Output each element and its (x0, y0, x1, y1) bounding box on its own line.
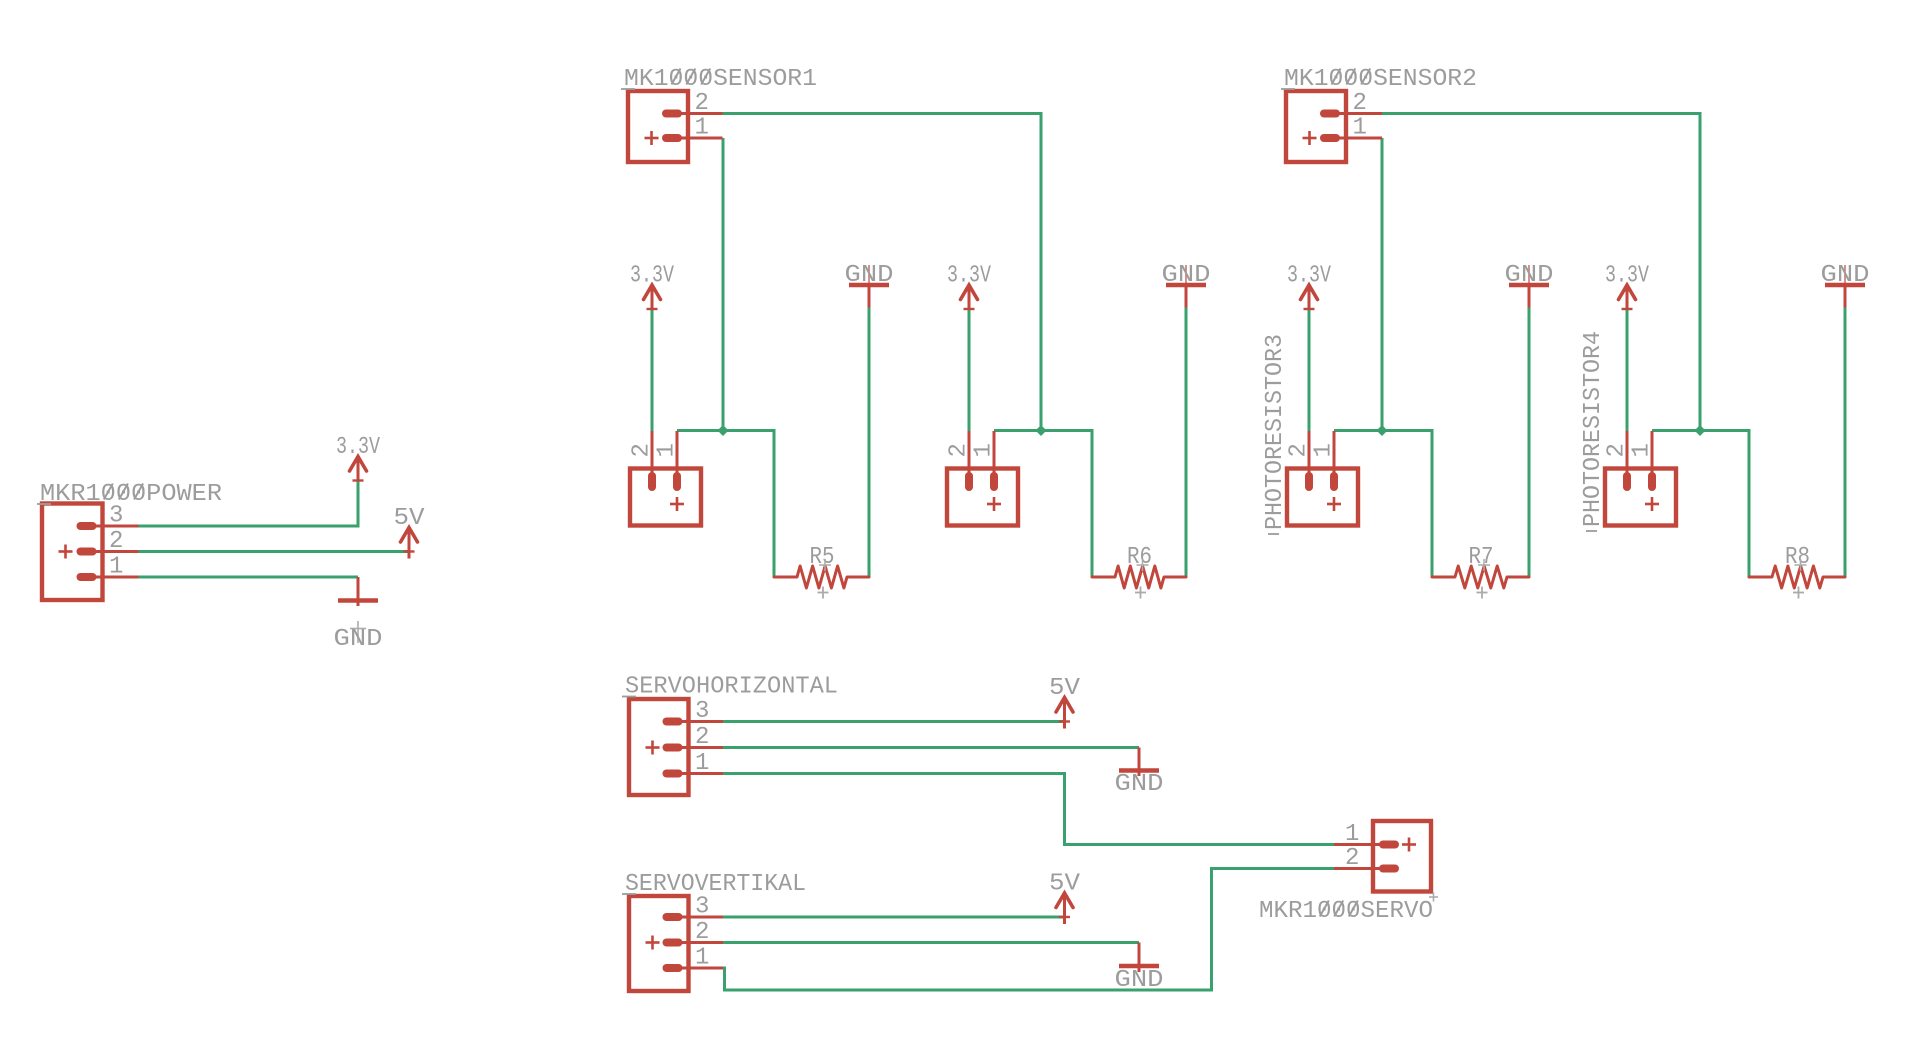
pin 1 pad (1320, 134, 1340, 142)
pin 1 pad (662, 134, 682, 142)
ground GND at SERVOVERTIKAL (1115, 943, 1164, 995)
junction A (718, 425, 729, 436)
pin 2 pad (663, 744, 683, 752)
junction D (1695, 425, 1706, 436)
pin 2 pad (1320, 110, 1340, 118)
svg-text:2: 2 (695, 919, 709, 946)
label MKR1000SERVO (1259, 893, 1438, 926)
wire MK1000SENSOR2 pin1 to junction C (1381, 138, 1384, 431)
svg-text:1: 1 (1629, 443, 1656, 457)
svg-text:5V: 5V (1049, 675, 1081, 702)
pin 1 pad (1330, 472, 1338, 491)
svg-text:GND: GND (334, 626, 383, 653)
svg-text:2: 2 (1345, 845, 1359, 872)
ground GND at MKR1000POWER (334, 577, 383, 653)
svg-text:1: 1 (695, 945, 709, 972)
connector SERVOHORIZONTAL (629, 698, 723, 795)
connector MK1000SENSOR1 (628, 90, 723, 162)
pin 2 pad (1379, 865, 1399, 873)
svg-text:2: 2 (695, 90, 709, 117)
pin 3 pad (663, 913, 683, 921)
pin 1 pad (1648, 472, 1656, 491)
svg-text:2: 2 (1286, 443, 1313, 457)
svg-text:5V: 5V (394, 505, 426, 532)
wire 3.3V supply to PHOTORESISTOR4 pin2 (1626, 310, 1629, 433)
supply 5V at SERVOVERTIKAL (1049, 871, 1081, 925)
resistor R8 (1749, 544, 1845, 599)
wire 3.3V supply to PHOTORESISTOR3 pin2 (1308, 310, 1311, 433)
svg-text:GND: GND (1505, 262, 1554, 289)
wire SERVOVERTIKAL pin1 to MKR1000SERVO pin2 (723, 869, 1334, 991)
svg-text:3.3V: 3.3V (1287, 263, 1331, 290)
wire MK1000SENSOR1 pin2 to junction B (723, 114, 1042, 431)
svg-text:MK1000SENSOR1: MK1000SENSOR1 (624, 66, 817, 93)
supply 3.3V at MKR1000POWER (336, 434, 380, 481)
svg-text:3.3V: 3.3V (630, 263, 674, 290)
wire SERVOHORIZONTAL pin1 to MKR1000SERVO pin1 (723, 774, 1334, 845)
svg-text:3.3V: 3.3V (1605, 263, 1649, 290)
ground GND above R6 (1162, 262, 1211, 308)
wire SERVOVERTIKAL pin3 to 5V (723, 916, 1065, 919)
svg-text:GND: GND (1115, 967, 1164, 994)
pin 2 pad (662, 110, 682, 118)
wire SERVOHORIZONTAL pin3 to 5V (723, 720, 1065, 723)
label MKR1000POWER (37, 481, 222, 508)
svg-text:1: 1 (695, 115, 709, 142)
svg-text:PHOTORESISTOR4: PHOTORESISTOR4 (1580, 331, 1607, 527)
svg-text:SERVOHORIZONTAL: SERVOHORIZONTAL (625, 674, 838, 701)
ground GND above R7 (1505, 262, 1554, 308)
polarity mark + (646, 746, 660, 749)
wire R5 right to GND (868, 308, 871, 578)
wire SERVOHORIZONTAL pin2 to GND (723, 746, 1139, 749)
polarity mark + (1327, 503, 1341, 506)
connector PHOTORESISTOR4 (1604, 431, 1677, 526)
pin 2 pad (663, 939, 683, 947)
svg-text:1: 1 (971, 443, 998, 457)
pin 2 pad (77, 548, 97, 556)
svg-text:1: 1 (1353, 115, 1367, 142)
svg-text:R6: R6 (1127, 544, 1152, 571)
supply 3.3V above PHOTORESISTOR4 (1605, 263, 1649, 310)
svg-text:GND: GND (845, 262, 894, 289)
wire net 5V from MKR1000POWER pin2 (139, 550, 410, 553)
wire junction C to R7 left (1334, 431, 1432, 578)
ground GND at SERVOHORIZONTAL (1115, 748, 1164, 799)
svg-text:2: 2 (1353, 90, 1367, 117)
pin 2 pad (648, 472, 656, 491)
svg-text:1: 1 (1345, 821, 1359, 848)
label PHOTORESISTOR4 (1580, 331, 1607, 531)
resistor R7 (1432, 544, 1529, 599)
label SERVOVERTIKAL (622, 871, 806, 898)
connector MKR1000SERVO (1334, 821, 1431, 892)
pin 1 pad (990, 472, 998, 491)
label SERVOHORIZONTAL (622, 674, 838, 701)
polarity mark + (59, 550, 73, 553)
pin 2 pad (1623, 472, 1631, 491)
svg-text:2: 2 (629, 443, 656, 457)
connector MK1000SENSOR2 (1286, 90, 1382, 162)
svg-text:2: 2 (1604, 443, 1631, 457)
wire 3.3V supply to photoresistor2 pin2 (968, 310, 971, 433)
label MK1000SENSOR1 (621, 66, 817, 93)
svg-text:1: 1 (109, 554, 123, 581)
svg-text:2: 2 (109, 528, 123, 555)
svg-text:2: 2 (946, 443, 973, 457)
supply 5V at SERVOHORIZONTAL (1049, 675, 1081, 729)
wire 3.3V supply to photoresistor1 pin2 (651, 310, 654, 433)
polarity mark + (1303, 137, 1317, 140)
pin 1 pad (663, 964, 683, 972)
wire R7 right to GND (1528, 308, 1531, 578)
label MK1000SENSOR2 (1281, 66, 1477, 93)
svg-text:5V: 5V (1049, 871, 1081, 898)
connector MKR1000POWER (42, 503, 139, 601)
polarity mark + (1645, 503, 1659, 506)
svg-text:GND: GND (1162, 262, 1211, 289)
pin 3 pad (663, 718, 683, 726)
svg-text:2: 2 (695, 724, 709, 751)
polarity mark + (646, 941, 660, 944)
svg-text:PHOTORESISTOR3: PHOTORESISTOR3 (1262, 334, 1289, 530)
pin 3 pad (77, 522, 97, 530)
polarity mark + (645, 137, 659, 140)
polarity mark + (987, 503, 1001, 506)
wire R6 right to GND (1185, 308, 1188, 578)
wire MK1000SENSOR2 pin2 to junction D (1382, 114, 1700, 431)
svg-text:R8: R8 (1785, 544, 1810, 571)
svg-text:MKR1000SERVO: MKR1000SERVO (1259, 898, 1433, 925)
svg-text:R7: R7 (1469, 544, 1494, 571)
svg-text:MK1000SENSOR2: MK1000SENSOR2 (1284, 66, 1477, 93)
pin 1 pad (77, 573, 97, 581)
wire SERVOVERTIKAL pin2 to GND (723, 941, 1139, 944)
resistor R6 (1092, 544, 1186, 599)
wire net 3V3 from MKR1000POWER pin3 (139, 481, 359, 527)
connector SERVOVERTIKAL (629, 894, 723, 992)
ground GND above R8 (1821, 262, 1870, 308)
connector PHOTORESISTOR3 (1286, 431, 1359, 526)
pin 1 pad (663, 770, 683, 778)
connector photoresistor 2 (946, 431, 1019, 526)
svg-text:GND: GND (1115, 771, 1164, 798)
supply 3.3V above photoresistor2 (947, 263, 991, 310)
connector photoresistor 1 (629, 431, 702, 526)
ground GND above R5 (845, 262, 894, 308)
wire junction D to R8 left (1652, 431, 1749, 578)
supply 5V at MKR1000POWER (394, 505, 426, 559)
polarity mark + (1402, 843, 1416, 846)
svg-text:3: 3 (695, 698, 709, 725)
wire MK1000SENSOR1 pin1 to junction A (722, 138, 725, 431)
svg-text:MKR1000POWER: MKR1000POWER (40, 481, 222, 508)
svg-text:1: 1 (695, 750, 709, 777)
svg-text:3.3V: 3.3V (336, 434, 380, 461)
pin 2 pad (965, 472, 973, 491)
wire R8 right to GND (1844, 308, 1847, 578)
junction C (1377, 425, 1388, 436)
svg-text:GND: GND (1821, 262, 1870, 289)
svg-text:3.3V: 3.3V (947, 263, 991, 290)
svg-text:R5: R5 (810, 544, 835, 571)
junction B (1036, 425, 1047, 436)
svg-text:1: 1 (1311, 443, 1338, 457)
wire net GND from MKR1000POWER pin1 (139, 576, 359, 579)
supply 3.3V above PHOTORESISTOR3 (1287, 263, 1331, 310)
svg-text:1: 1 (654, 443, 681, 457)
supply 3.3V above photoresistor1 (630, 263, 674, 310)
wire junction A to R5 left (677, 431, 774, 578)
label PHOTORESISTOR3 (1262, 334, 1289, 534)
resistor R5 (774, 544, 869, 599)
pin 1 pad (1379, 841, 1399, 849)
pin 1 pad (673, 472, 681, 491)
polarity mark + (670, 503, 684, 506)
svg-text:SERVOVERTIKAL: SERVOVERTIKAL (625, 871, 806, 898)
pin 2 pad (1305, 472, 1313, 491)
wire junction B to R6 left (994, 431, 1092, 578)
